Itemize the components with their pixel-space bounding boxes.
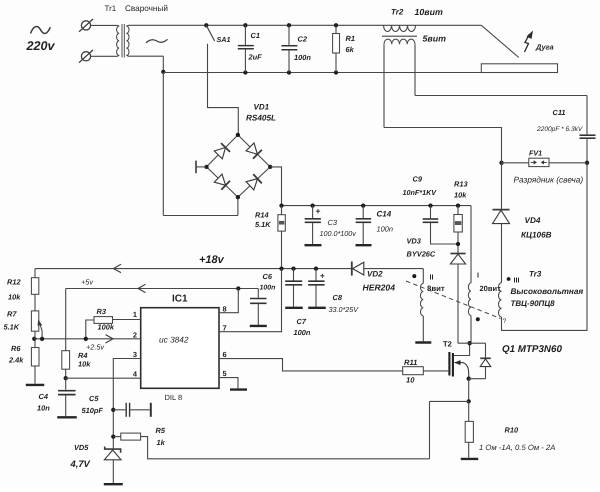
svg-text:R6: R6 (11, 344, 21, 353)
svg-text:II: II (430, 273, 434, 282)
svg-text:Дуга: Дуга (535, 43, 554, 52)
svg-text:C2: C2 (298, 35, 308, 44)
svg-text:SA1: SA1 (217, 35, 231, 44)
svg-text:10k: 10k (454, 191, 467, 200)
svg-text:+5v: +5v (81, 278, 93, 287)
svg-text:FV1: FV1 (529, 148, 542, 157)
svg-text:R12: R12 (7, 278, 21, 287)
svg-text:Tr3: Tr3 (529, 270, 542, 279)
svg-text:Разрядник (свеча): Разрядник (свеча) (514, 175, 584, 185)
svg-text:R10: R10 (505, 426, 519, 435)
svg-text:2uF: 2uF (248, 53, 263, 62)
svg-text:C7: C7 (297, 317, 307, 326)
svg-text:R3: R3 (97, 307, 107, 316)
svg-text:20вит: 20вит (480, 284, 502, 293)
svg-text:Высоковольтная: Высоковольтная (511, 287, 584, 296)
svg-text:HER204: HER204 (363, 283, 396, 293)
svg-text:33.0*25V: 33.0*25V (329, 305, 360, 314)
svg-text:VD1: VD1 (254, 103, 270, 112)
svg-text:1 Ом -1А, 0.5 Ом - 2А: 1 Ом -1А, 0.5 Ом - 2А (479, 443, 555, 452)
svg-text:III: III (514, 276, 520, 285)
svg-text:uc 3842: uc 3842 (159, 335, 189, 345)
svg-text:100n: 100n (260, 285, 276, 292)
svg-text:C5: C5 (89, 394, 99, 403)
svg-text:Tr2: Tr2 (391, 8, 404, 17)
svg-text:+18v: +18v (199, 254, 225, 266)
svg-text:C4: C4 (39, 392, 48, 401)
svg-text:8: 8 (223, 305, 227, 314)
svg-text:100n: 100n (294, 53, 311, 62)
svg-text:100k: 100k (98, 323, 115, 332)
svg-text:+2.5v: +2.5v (86, 343, 104, 352)
svg-text:R1: R1 (346, 34, 355, 43)
svg-text:2: 2 (133, 330, 137, 339)
svg-text:C3: C3 (328, 218, 338, 227)
svg-text:+: + (320, 272, 325, 281)
svg-text:6k: 6k (346, 45, 355, 54)
svg-text:R13: R13 (454, 180, 468, 189)
svg-text:КЦ106В: КЦ106В (521, 231, 552, 240)
svg-text:T2: T2 (443, 340, 452, 349)
svg-text:10k: 10k (78, 360, 91, 369)
svg-text:C1: C1 (251, 31, 260, 40)
svg-text:10nF*1KV: 10nF*1KV (403, 188, 438, 197)
svg-text:VD4: VD4 (525, 216, 541, 225)
svg-text:100.0*100v: 100.0*100v (320, 229, 357, 238)
svg-text:5.1K: 5.1K (255, 220, 271, 229)
svg-text:10n: 10n (37, 404, 50, 413)
svg-text:10вит: 10вит (415, 7, 443, 17)
svg-text:510pF: 510pF (82, 406, 104, 415)
svg-text:6: 6 (223, 350, 227, 359)
svg-text:1: 1 (133, 310, 137, 319)
svg-text:C9: C9 (413, 175, 423, 184)
svg-text:5.1K: 5.1K (4, 323, 20, 332)
svg-text:4,7V: 4,7V (70, 458, 91, 469)
svg-text:8вит: 8вит (427, 284, 445, 293)
svg-text:VD5: VD5 (74, 443, 89, 452)
svg-text:10k: 10k (8, 293, 21, 302)
svg-text:R11: R11 (404, 358, 417, 367)
svg-text:+: + (316, 206, 321, 216)
svg-text:10: 10 (406, 376, 415, 385)
svg-text:C14: C14 (377, 210, 392, 219)
svg-text:R14: R14 (255, 211, 269, 220)
svg-text:R7: R7 (7, 310, 17, 319)
svg-text:2200pF * 6.3kV: 2200pF * 6.3kV (536, 126, 583, 133)
svg-text:2.4k: 2.4k (8, 356, 24, 365)
svg-text:I: I (477, 271, 479, 280)
svg-text:5: 5 (223, 369, 227, 378)
svg-text:VD3: VD3 (407, 237, 422, 246)
svg-text:Сварочный: Сварочный (125, 4, 168, 13)
svg-text:100n: 100n (294, 328, 311, 337)
svg-text:R5: R5 (156, 426, 166, 435)
svg-text:C11: C11 (553, 108, 566, 117)
svg-text:Q1 МТР3N60: Q1 МТР3N60 (502, 344, 562, 355)
svg-text:IC1: IC1 (172, 294, 188, 305)
svg-text:220v: 220v (26, 39, 56, 53)
svg-text:ТВЦ-90ПЦ8: ТВЦ-90ПЦ8 (511, 299, 556, 308)
svg-text:C6: C6 (263, 272, 273, 281)
svg-text:3: 3 (133, 350, 137, 359)
svg-text:DIL 8: DIL 8 (165, 393, 183, 402)
svg-text:7: 7 (223, 324, 227, 333)
svg-text:Tr1: Tr1 (105, 4, 117, 13)
svg-text:?: ? (503, 318, 507, 325)
svg-text:1k: 1k (157, 438, 166, 447)
svg-text:100n: 100n (377, 225, 393, 234)
svg-text:VD2: VD2 (367, 270, 383, 279)
svg-text:BYV26C: BYV26C (407, 250, 436, 259)
svg-text:5вит: 5вит (423, 34, 447, 44)
svg-text:C8: C8 (333, 293, 343, 302)
svg-text:RS405L: RS405L (246, 114, 276, 123)
